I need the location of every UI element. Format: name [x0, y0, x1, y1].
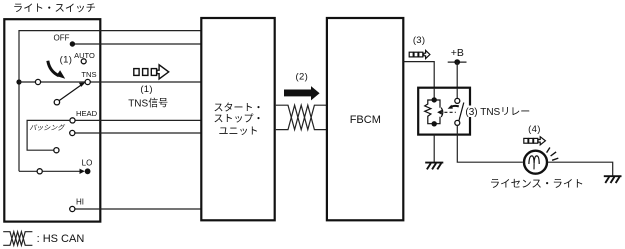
- signal symbol (1): TNS signal: [134, 65, 169, 79]
- wire: common bus vertical: [19, 31, 202, 172]
- switch arm to TNS: [54, 83, 85, 105]
- lamp rays: [547, 148, 559, 161]
- svg-text:OFF: OFF: [54, 34, 70, 43]
- svg-text:TNS信号: TNS信号: [128, 97, 168, 109]
- svg-text:(3) TNSリレー: (3) TNSリレー: [465, 107, 530, 118]
- contact LO (closed dot): [85, 168, 91, 174]
- svg-text:(3): (3): [413, 35, 426, 46]
- relay coil with resistor and diode: [425, 88, 443, 127]
- wire: coil to ground: [433, 135, 435, 163]
- node: bus junction: [16, 79, 21, 84]
- contact HI: [70, 206, 75, 211]
- wire: HI output: [75, 208, 201, 210]
- contact HEAD: [70, 118, 75, 123]
- arrow (2): bold direction arrow: [284, 86, 320, 100]
- label: TNS relay: [465, 106, 531, 118]
- ground G1: [425, 163, 443, 170]
- svg-text:スタート・: スタート・: [214, 102, 264, 114]
- wire: passing branch: [27, 120, 70, 150]
- svg-text:AUTO: AUTO: [74, 51, 95, 60]
- svg-text:(1): (1): [140, 84, 153, 95]
- contact OFF (closed dot): [70, 41, 75, 46]
- relay K1 box: [418, 88, 470, 135]
- svg-text:(4): (4): [528, 124, 541, 135]
- wire: FBCM output to relay coil: [404, 62, 435, 88]
- wire: relay contact to lamp: [457, 135, 523, 163]
- ground G2: [604, 176, 622, 183]
- contact: wiper pivot on feed: [35, 79, 40, 84]
- svg-text:ユニット: ユニット: [219, 127, 259, 138]
- mechanical link dashed: [444, 111, 455, 113]
- wire: +B to relay contact: [456, 62, 458, 88]
- svg-text:(2): (2): [296, 72, 309, 83]
- light switch box: [4, 19, 100, 221]
- wire: HEAD output: [73, 119, 202, 121]
- relay actuate arrow: [448, 105, 459, 109]
- relay contact: [455, 88, 464, 135]
- contact: passing arm end: [54, 148, 59, 153]
- contact TNS: [85, 79, 90, 84]
- twisted pair wire to FBCM: [276, 105, 327, 129]
- svg-text:HEAD: HEAD: [76, 109, 98, 118]
- legend: HS CAN twisted pair symbol: [3, 232, 32, 246]
- contact: passing output: [70, 130, 75, 135]
- wire: LO feed: [19, 170, 40, 172]
- svg-text:HI: HI: [76, 198, 84, 207]
- svg-text:ライセンス・ライト: ライセンス・ライト: [490, 178, 584, 190]
- svg-text:パッシング: パッシング: [29, 124, 65, 132]
- svg-text:LO: LO: [82, 159, 93, 168]
- signal symbol (3): [409, 50, 430, 58]
- wire: OFF output: [72, 43, 201, 45]
- wire: TNS feed and output: [19, 81, 201, 83]
- svg-text:: HS CAN: : HS CAN: [37, 233, 85, 245]
- wire: passing output: [75, 132, 201, 134]
- svg-text:TNS: TNS: [81, 70, 96, 79]
- arrow (1): rotate direction: [48, 61, 65, 79]
- svg-text:+B: +B: [451, 47, 464, 59]
- lamp: license light: [524, 151, 547, 174]
- start stop unit box U1: [201, 18, 274, 220]
- svg-text:ストップ・: ストップ・: [214, 113, 264, 125]
- signal symbol (4): [524, 137, 546, 145]
- wire: lamp to ground: [548, 162, 613, 175]
- svg-text:FBCM: FBCM: [350, 114, 381, 126]
- FBCM box U2: [327, 18, 403, 220]
- contact AUTO: [81, 59, 86, 64]
- svg-text:ライト・スイッチ: ライト・スイッチ: [13, 3, 96, 15]
- svg-text:(1): (1): [60, 54, 73, 65]
